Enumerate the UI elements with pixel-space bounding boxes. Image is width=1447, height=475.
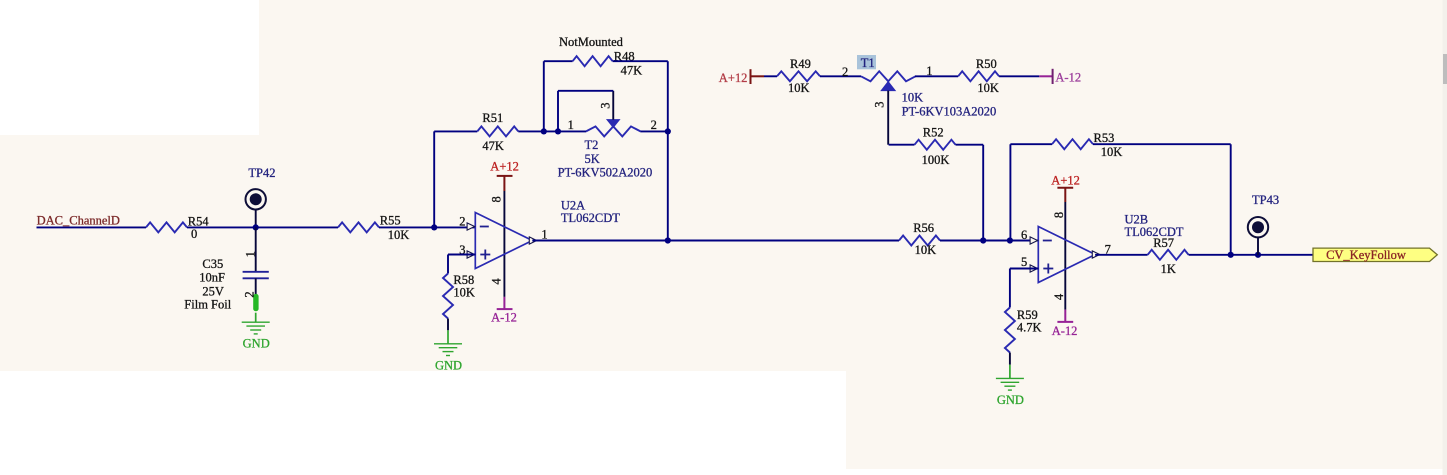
svg-text:DAC_ChannelD: DAC_ChannelD (37, 213, 120, 227)
svg-text:GND: GND (997, 393, 1024, 407)
svg-text:CV_KeyFollow: CV_KeyFollow (1326, 248, 1406, 262)
svg-text:10K: 10K (453, 285, 475, 299)
svg-text:TL062CDT: TL062CDT (561, 211, 620, 225)
svg-text:4.7K: 4.7K (1017, 321, 1042, 335)
svg-text:1: 1 (568, 118, 574, 132)
svg-text:C35: C35 (202, 257, 223, 271)
svg-text:1K: 1K (1161, 262, 1176, 276)
svg-text:8: 8 (490, 196, 504, 202)
svg-text:2: 2 (242, 291, 256, 297)
svg-text:47K: 47K (621, 64, 643, 78)
svg-text:R56: R56 (913, 221, 934, 235)
svg-text:1: 1 (243, 251, 257, 257)
svg-text:10K: 10K (788, 81, 810, 95)
svg-text:47K: 47K (482, 139, 504, 153)
svg-text:R51: R51 (482, 111, 503, 125)
svg-text:6: 6 (1021, 228, 1027, 242)
svg-text:4: 4 (490, 278, 504, 285)
svg-text:Film Foil: Film Foil (184, 298, 231, 312)
svg-text:10K: 10K (1101, 145, 1123, 159)
svg-text:R53: R53 (1094, 131, 1115, 145)
svg-text:PT-6KV502A2020: PT-6KV502A2020 (558, 166, 653, 180)
svg-text:2: 2 (651, 118, 657, 132)
svg-text:8: 8 (1052, 212, 1066, 218)
svg-text:10K: 10K (915, 243, 937, 257)
svg-text:2: 2 (459, 214, 465, 228)
svg-text:2: 2 (842, 65, 848, 79)
svg-text:5: 5 (1021, 255, 1027, 269)
svg-text:A+12: A+12 (1051, 173, 1080, 187)
svg-text:R57: R57 (1153, 236, 1174, 250)
svg-text:A-12: A-12 (491, 310, 517, 324)
svg-text:10K: 10K (388, 228, 410, 242)
svg-text:3: 3 (599, 102, 613, 108)
svg-text:TP42: TP42 (248, 166, 275, 180)
svg-text:10nF: 10nF (199, 271, 225, 285)
svg-text:U2B: U2B (1125, 212, 1149, 226)
svg-text:NotMounted: NotMounted (559, 35, 624, 49)
svg-text:A-12: A-12 (1055, 71, 1081, 85)
svg-text:A+12: A+12 (490, 160, 519, 174)
svg-text:T1: T1 (861, 56, 875, 70)
svg-text:R50: R50 (976, 57, 997, 71)
svg-text:0: 0 (191, 227, 197, 241)
svg-text:GND: GND (243, 337, 270, 351)
svg-text:1: 1 (541, 227, 547, 241)
svg-text:100K: 100K (922, 153, 950, 167)
svg-text:R52: R52 (923, 125, 944, 139)
svg-text:R54: R54 (188, 214, 210, 228)
svg-text:4: 4 (1052, 293, 1066, 300)
svg-text:TP43: TP43 (1252, 193, 1279, 207)
svg-text:A+12: A+12 (719, 71, 748, 85)
svg-text:R55: R55 (380, 214, 401, 228)
svg-text:10K: 10K (977, 81, 999, 95)
svg-text:5K: 5K (585, 152, 600, 166)
svg-text:25V: 25V (202, 285, 224, 299)
svg-text:R49: R49 (790, 57, 811, 71)
svg-text:3: 3 (872, 101, 886, 107)
svg-text:PT-6KV103A2020: PT-6KV103A2020 (902, 105, 997, 119)
svg-text:T2: T2 (585, 138, 599, 152)
svg-text:GND: GND (435, 358, 462, 372)
svg-text:A-12: A-12 (1052, 324, 1078, 338)
svg-text:10K: 10K (902, 91, 924, 105)
